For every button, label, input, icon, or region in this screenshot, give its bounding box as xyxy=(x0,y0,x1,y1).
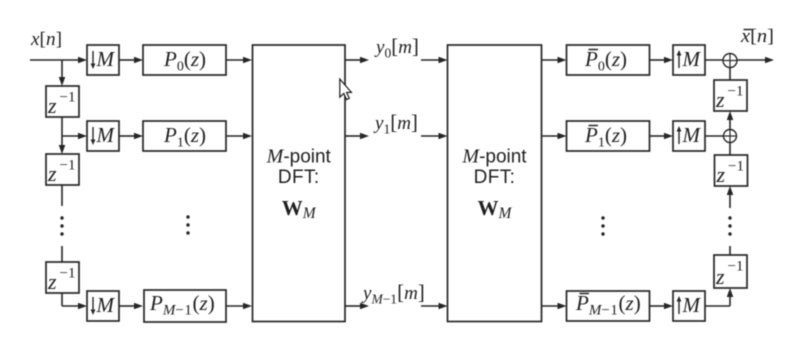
svg-text:P1(z): P1(z) xyxy=(584,123,627,151)
svg-text:PM−1(z): PM−1(z) xyxy=(575,291,641,319)
svg-text:z: z xyxy=(47,93,57,118)
svg-text:P0(z): P0(z) xyxy=(163,47,206,75)
svg-text:M: M xyxy=(96,293,116,317)
svg-text:DFT:: DFT: xyxy=(278,167,320,188)
svg-text:PM−1(z): PM−1(z) xyxy=(149,291,215,319)
svg-text:M: M xyxy=(682,293,702,317)
svg-text:z: z xyxy=(715,87,725,112)
svg-text:P0(z): P0(z) xyxy=(584,47,627,75)
svg-text:z: z xyxy=(47,161,57,186)
svg-text:M-point: M-point xyxy=(461,146,527,168)
svg-text:WM: WM xyxy=(478,196,513,222)
svg-text:M: M xyxy=(682,47,702,71)
svg-text:DFT:: DFT: xyxy=(474,167,516,188)
svg-text:−1: −1 xyxy=(728,159,744,175)
svg-text:M: M xyxy=(682,123,702,147)
svg-text:z: z xyxy=(47,269,57,294)
svg-text:y0[m]: y0[m] xyxy=(374,34,419,61)
svg-text:M: M xyxy=(96,47,116,71)
svg-text:P1(z): P1(z) xyxy=(163,123,206,151)
svg-text:M-point: M-point xyxy=(266,146,332,168)
svg-text:−1: −1 xyxy=(60,158,76,174)
svg-text:z: z xyxy=(716,162,726,187)
svg-text:−1: −1 xyxy=(728,84,744,100)
svg-text:WM: WM xyxy=(282,196,317,222)
svg-text:z: z xyxy=(715,264,725,289)
svg-text:−1: −1 xyxy=(728,259,744,275)
svg-text:x[n]: x[n] xyxy=(30,29,62,50)
svg-text:−1: −1 xyxy=(60,90,76,106)
svg-text:yM−1[m]: yM−1[m] xyxy=(361,280,425,307)
svg-text:−1: −1 xyxy=(60,266,76,282)
svg-text:M: M xyxy=(96,123,116,147)
svg-text:y1[m]: y1[m] xyxy=(373,110,418,137)
